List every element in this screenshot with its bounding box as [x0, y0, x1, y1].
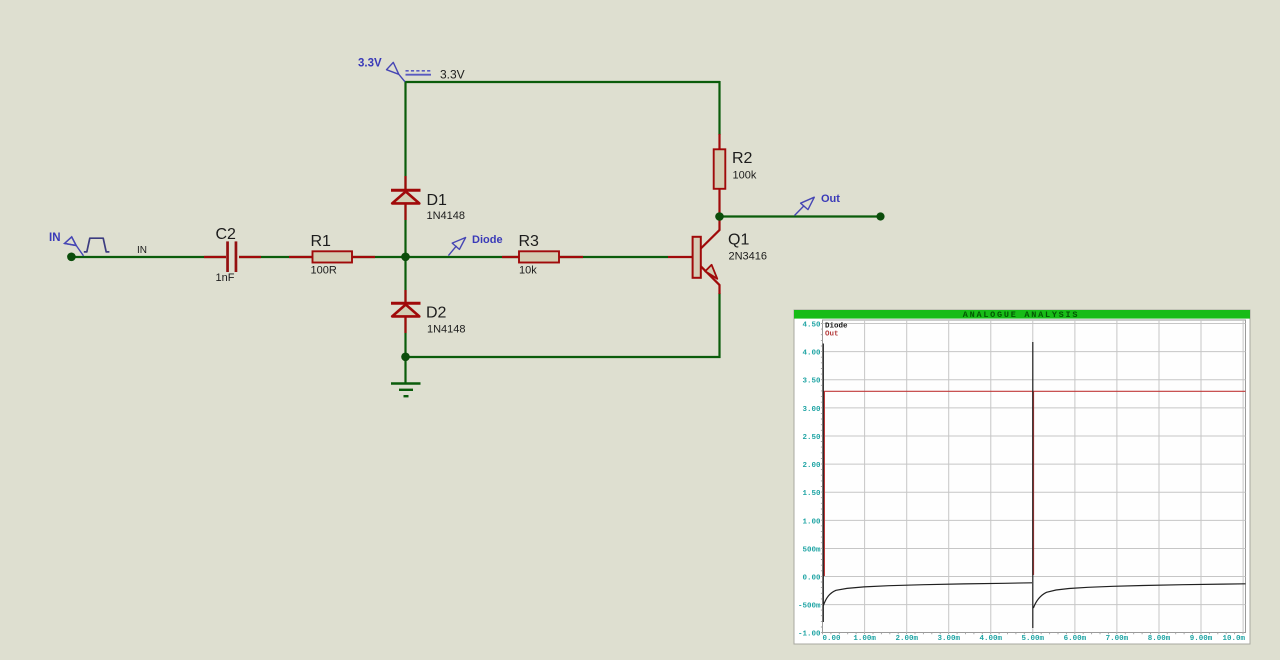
node collector junction (R2/Q1/Out) [715, 212, 724, 221]
x axis labels [823, 635, 1246, 643]
generator IN probe [65, 237, 110, 256]
label D1 [427, 192, 448, 209]
wire R1 to junction [351, 256, 406, 258]
svg-text:9.00m: 9.00m [1190, 635, 1213, 643]
label Out (blue) [821, 193, 840, 205]
svg-text:3.00: 3.00 [802, 406, 821, 414]
svg-text:0.00: 0.00 [802, 575, 821, 583]
svg-text:-500m: -500m [798, 603, 821, 611]
svg-text:3.00m: 3.00m [937, 635, 960, 643]
wire vertical 3.3V rail to D1 to junction [404, 82, 406, 257]
svg-text:2.00m: 2.00m [895, 635, 918, 643]
label IN wire net name [137, 245, 147, 256]
svg-text:5.00m: 5.00m [1022, 635, 1045, 643]
svg-text:10.0m: 10.0m [1222, 635, 1245, 643]
svg-text:7.00m: 7.00m [1106, 635, 1129, 643]
svg-text:Diode: Diode [825, 323, 848, 331]
label R3 [519, 233, 540, 250]
label 100R [311, 265, 337, 277]
graph window background [794, 310, 1250, 644]
label 1nF [216, 272, 235, 284]
svg-text:1.00m: 1.00m [853, 635, 876, 643]
svg-text:4.50: 4.50 [802, 322, 821, 330]
node IN terminal [67, 252, 76, 261]
wire R3 to Q1 base [559, 256, 668, 258]
svg-text:4.00: 4.00 [802, 350, 821, 358]
power terminal 3.3V [387, 62, 432, 81]
wire C2 to R1 [239, 256, 313, 258]
wire top rail down to R2 [718, 81, 720, 135]
label 1N4148 (D2) [427, 324, 466, 336]
label 3.3V (blue) [358, 58, 382, 70]
svg-text:8.00m: 8.00m [1148, 635, 1171, 643]
node junction (R1/R3/D1/D2) [401, 252, 410, 261]
label 3.3V (net, black) [440, 68, 465, 82]
label Q1 [728, 232, 749, 249]
svg-text:4.00m: 4.00m [980, 635, 1003, 643]
svg-text:6.00m: 6.00m [1064, 635, 1087, 643]
gridlines vertical [865, 320, 1244, 633]
svg-text:0.00: 0.00 [823, 635, 842, 643]
label D2 [426, 305, 447, 322]
gridlines horizontal [823, 324, 1246, 605]
axis minor ticks [821, 324, 1243, 635]
diode D1 [391, 176, 421, 220]
node lower junction (D2/ground/emitter wire) [401, 353, 410, 362]
label 1N4148 (D1) [427, 210, 466, 222]
label 2N3416 [729, 251, 768, 263]
svg-text:1.00: 1.00 [802, 518, 821, 526]
svg-text:500m: 500m [802, 547, 821, 555]
svg-text:1.50: 1.50 [802, 490, 821, 498]
label IN (blue probe name) [49, 232, 61, 244]
capacitor C2 [204, 241, 261, 272]
node Out terminal [876, 212, 884, 220]
graph title bar [794, 310, 1250, 320]
plot border [823, 320, 1246, 633]
probe Diode [448, 238, 465, 256]
trace Diode (black) [823, 342, 1245, 628]
wire junction to R3 [405, 256, 520, 258]
label Diode (blue) [472, 234, 503, 246]
legend Diode [825, 323, 848, 331]
svg-text:ANALOGUE ANALYSIS: ANALOGUE ANALYSIS [963, 310, 1079, 320]
resistor R1 [289, 251, 375, 262]
transistor Q1 [668, 213, 720, 294]
diode D2 [391, 290, 421, 333]
svg-text:-1.00: -1.00 [798, 631, 821, 639]
wire lower node to ground [404, 357, 406, 383]
wire junction to D2 to lower node [404, 257, 406, 357]
ground [391, 384, 421, 397]
wire top rail horizontal [405, 81, 721, 83]
label C2 [216, 226, 237, 243]
svg-text:3.50: 3.50 [802, 378, 821, 386]
label R1 [311, 233, 332, 250]
wire IN node to C2 [71, 256, 226, 258]
svg-text:2.50: 2.50 [802, 434, 821, 442]
trace Out (red) [823, 391, 1246, 576]
wire collector node to Out terminal [719, 215, 881, 217]
svg-text:2.00: 2.00 [802, 462, 821, 470]
resistor R2 [714, 134, 726, 216]
resistor R3 [502, 251, 583, 262]
label 100k [733, 170, 757, 182]
legend Out [825, 331, 839, 339]
svg-text:Out: Out [825, 331, 839, 339]
wire lower node to emitter column [405, 356, 721, 358]
wire emitter column vertical [718, 293, 720, 358]
label R2 [732, 150, 753, 167]
y axis labels [798, 322, 821, 639]
label 10k [519, 265, 537, 277]
probe Out [795, 197, 815, 215]
